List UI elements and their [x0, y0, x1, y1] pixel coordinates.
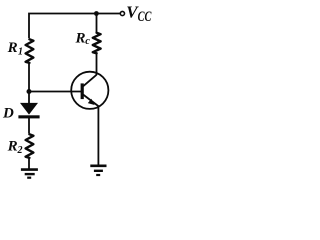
node top junction: [94, 11, 99, 16]
svg-text:R: R: [7, 40, 18, 56]
svg-text:D: D: [2, 106, 14, 122]
wire top rail from left corner to VCC terminal: [29, 14, 120, 39]
svg-text:R: R: [75, 30, 86, 46]
ground right: [90, 166, 106, 175]
wire base: [29, 91, 81, 93]
svg-text:R: R: [7, 139, 18, 155]
node base junction: [27, 89, 32, 94]
wire diode to R2: [28, 118, 30, 133]
transistor Q1: [71, 72, 108, 109]
wire R2 to ground: [28, 158, 30, 170]
svg-text:2: 2: [17, 145, 23, 156]
ground left: [21, 170, 38, 178]
wire collector: [96, 53, 98, 75]
terminal VCC open circle: [120, 11, 124, 15]
resistor Rc: [93, 33, 101, 54]
resistor R1: [26, 39, 34, 63]
wire Rc upper: [96, 14, 98, 32]
svg-text:c: c: [85, 36, 90, 47]
resistor R2: [26, 134, 34, 158]
svg-text:1: 1: [18, 47, 23, 58]
diode D: [18, 103, 39, 119]
wire emitter: [97, 107, 99, 166]
svg-text:CC: CC: [138, 9, 152, 25]
wire left rail mid: [28, 63, 30, 103]
